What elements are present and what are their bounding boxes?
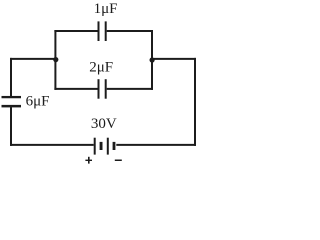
wire left connector (outer left to node A) [10, 58, 56, 60]
wire bottom right (battery negative plate to outer right) [116, 144, 196, 146]
node A junction dot [53, 57, 58, 62]
wire middle branch right (C2 right plate to node B) [107, 88, 153, 90]
svg-text:30V: 30V [91, 116, 117, 132]
wire top branch left (node A to C1 left plate) [54, 30, 97, 32]
battery plus sign horizontal bar [85, 160, 92, 161]
wire right connector (node B to outer right) [151, 58, 196, 60]
wire middle branch left (node A to C2 left plate) [54, 88, 97, 90]
svg-text:1μF: 1μF [94, 1, 118, 17]
capacitor C1 1uF right plate [105, 21, 107, 41]
battery BT1 short plate left [100, 142, 103, 150]
svg-text:2μF: 2μF [89, 59, 113, 75]
battery plus sign vertical bar [88, 157, 90, 164]
wire outer left vertical lower (C3 bottom plate to bottom wire) [10, 107, 12, 146]
capacitor C2 2uF left plate [98, 79, 100, 99]
capacitor C3 6uF top plate [2, 96, 22, 98]
wire bottom left (to battery positive plate) [10, 144, 94, 146]
capacitor C2 2uF right plate [105, 79, 107, 99]
node B junction dot [150, 57, 155, 62]
wire outer left vertical upper (down to C3 top plate) [10, 58, 12, 96]
battery BT1 long plate left (positive) [94, 138, 96, 155]
wire inner right vertical [151, 30, 153, 90]
capacitor C3 6uF bottom plate [2, 105, 22, 108]
wire top branch right (C1 right plate to node B) [107, 30, 153, 32]
svg-text:6μF: 6μF [26, 93, 50, 109]
wire inner left vertical [54, 30, 56, 90]
battery BT1 short plate right (negative) [113, 142, 116, 150]
battery BT1 long plate right [107, 138, 109, 155]
capacitor C1 1uF left plate [98, 21, 100, 41]
battery minus sign [115, 160, 122, 162]
wire outer right vertical [194, 58, 196, 146]
